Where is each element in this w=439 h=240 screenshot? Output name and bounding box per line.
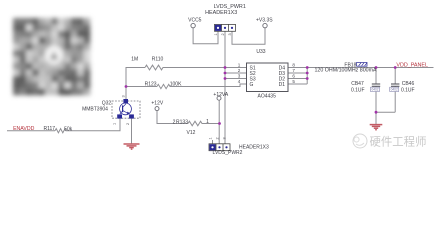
svg-text:Q32: Q32 — [102, 101, 112, 107]
svg-text:G: G — [250, 82, 254, 88]
svg-text:1: 1 — [206, 119, 209, 125]
svg-text:VCC5: VCC5 — [188, 17, 202, 23]
svg-text:8: 8 — [292, 62, 295, 67]
svg-text:1: 1 — [113, 123, 117, 125]
svg-text:1: 1 — [238, 62, 241, 67]
svg-text:D1: D1 — [279, 82, 286, 88]
svg-text:3: 3 — [223, 137, 227, 139]
svg-text:R133: R133 — [176, 119, 188, 125]
svg-text:100K: 100K — [170, 81, 182, 87]
svg-text:R117: R117 — [44, 126, 56, 132]
svg-text:3: 3 — [238, 73, 241, 78]
svg-text:1: 1 — [209, 137, 213, 139]
svg-text:HEADER1X3: HEADER1X3 — [205, 10, 237, 16]
svg-text:5: 5 — [292, 79, 295, 84]
svg-text:HEADER1X3: HEADER1X3 — [239, 144, 269, 150]
svg-text:硬件工程师: 硬件工程师 — [370, 135, 427, 149]
svg-text:AO4435: AO4435 — [258, 94, 277, 100]
svg-text:0.1UF: 0.1UF — [351, 87, 365, 93]
svg-text:R110: R110 — [152, 56, 164, 62]
svg-text:4: 4 — [238, 79, 241, 84]
svg-text:1: 1 — [214, 33, 218, 35]
svg-text:2: 2 — [216, 137, 220, 139]
svg-text:CB47: CB47 — [351, 81, 364, 87]
svg-text:+V3.3S: +V3.3S — [256, 17, 273, 23]
svg-text:LVDS_PWR2: LVDS_PWR2 — [213, 150, 243, 156]
svg-text:1M: 1M — [131, 56, 138, 62]
svg-text:3: 3 — [122, 95, 126, 97]
svg-text:MMBT3904: MMBT3904 — [82, 107, 108, 113]
svg-text:6: 6 — [292, 73, 295, 78]
svg-text:ENAVDD: ENAVDD — [13, 126, 34, 132]
svg-text:CB46: CB46 — [402, 81, 415, 87]
svg-text:VDD_PANEL: VDD_PANEL — [396, 63, 428, 69]
svg-text:R123: R123 — [145, 81, 157, 87]
svg-text:7: 7 — [292, 68, 295, 73]
svg-text:3: 3 — [228, 33, 232, 35]
svg-text:2: 2 — [221, 33, 225, 35]
svg-text:U33: U33 — [256, 49, 265, 55]
svg-text:0.1UF: 0.1UF — [401, 87, 415, 93]
svg-text:2: 2 — [238, 68, 241, 73]
svg-text:0402: 0402 — [371, 88, 378, 92]
svg-text:+12VA: +12VA — [213, 92, 228, 98]
svg-text:120 OHM/100MHz 800mA: 120 OHM/100MHz 800mA — [314, 67, 377, 73]
svg-text:+12V: +12V — [151, 101, 163, 107]
svg-text:50k: 50k — [64, 127, 73, 133]
svg-text:0402: 0402 — [391, 88, 398, 92]
svg-text:2: 2 — [126, 123, 130, 125]
svg-text:V12: V12 — [187, 130, 196, 136]
